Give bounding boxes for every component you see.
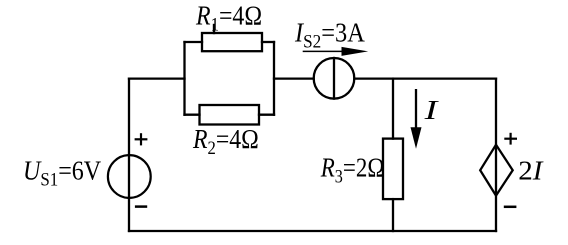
wire R3 branch upper xyxy=(392,79,394,139)
current arrow IS2 (points right) xyxy=(303,47,369,56)
dependent source 2I diamond xyxy=(480,145,513,196)
node R1 label anchor tick xyxy=(213,25,215,33)
minus sign of US1 xyxy=(135,205,147,208)
wire R1 left stub xyxy=(185,41,203,43)
voltage source US1 xyxy=(108,155,151,198)
wire left branch vertical xyxy=(128,79,130,231)
wire combo to current source xyxy=(274,77,314,79)
wire right branch vertical xyxy=(495,79,497,231)
svg-text:2I: 2I xyxy=(518,156,544,186)
plus sign of 2I source xyxy=(504,133,517,145)
wire bottom rail xyxy=(129,230,496,232)
wire parallel-combo left bar xyxy=(183,42,185,115)
minus sign of 2I source xyxy=(504,206,517,209)
wire R3 branch lower xyxy=(392,199,394,231)
wire R1 right stub xyxy=(262,41,274,43)
wire R2 right stub xyxy=(259,114,274,116)
plus sign of US1 xyxy=(135,133,148,145)
current source IS2 xyxy=(314,58,355,99)
current arrow I (points down) xyxy=(411,89,422,149)
wire top left horizontal xyxy=(129,77,185,79)
wire current source to right corner xyxy=(354,77,496,79)
wire parallel-combo right bar xyxy=(273,42,275,115)
resistor R2 xyxy=(200,105,260,125)
svg-text:I: I xyxy=(423,96,439,126)
svg-text:R3=2Ω: R3=2Ω xyxy=(320,154,385,187)
resistor R3 xyxy=(383,139,403,200)
wire R2 left stub xyxy=(185,114,200,116)
svg-text:R2=4Ω: R2=4Ω xyxy=(192,124,259,159)
resistor R1 xyxy=(202,33,262,51)
svg-text:R1=4Ω: R1=4Ω xyxy=(195,0,262,35)
svg-text:US1=6V: US1=6V xyxy=(23,155,102,190)
